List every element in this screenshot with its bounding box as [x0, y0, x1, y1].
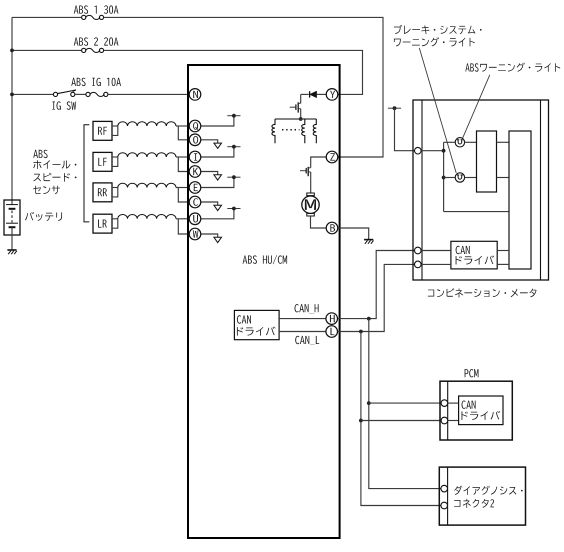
wire PCM pin to CAN driver H — [448, 402, 459, 404]
wire RF terminal 1 — [112, 125, 118, 127]
label ABS IG 10A — [71, 78, 121, 86]
label sensor — [33, 186, 60, 195]
pin Z — [326, 151, 338, 163]
ground internal arrow — [214, 175, 222, 180]
wire driver to logic 2 — [497, 177, 510, 179]
wire ABS2 feed left — [12, 49, 82, 51]
pin B — [326, 222, 338, 234]
wire LR terminal 1 — [112, 218, 118, 220]
switch IG SW — [53, 90, 76, 97]
pin meter lamp feed — [415, 147, 422, 154]
CAN driver (meter) box — [451, 241, 497, 269]
junction CAN_H — [367, 317, 371, 321]
motor pump M — [302, 193, 319, 216]
wire RR terminal 2 — [112, 188, 118, 197]
sensor LR — [93, 214, 112, 233]
block lamp driver — [477, 131, 497, 192]
wire solenoid arm — [275, 118, 316, 120]
wire sensor pin to internal rail — [201, 147, 234, 157]
twisted pair LF — [118, 153, 176, 157]
wire LR terminal 2 — [112, 219, 118, 228]
label ABS warning light — [465, 63, 560, 72]
transistor FET solenoid driver — [290, 102, 301, 112]
label CAN_L — [295, 336, 319, 345]
transistor FET motor driver — [300, 167, 311, 176]
wire sensor pin to internal rail — [201, 116, 234, 126]
label CAN — [237, 315, 251, 323]
label wheel — [33, 160, 76, 169]
diode flyback — [310, 91, 317, 98]
fuse ABS 2 20A — [82, 48, 104, 52]
diagnosis connector box — [439, 467, 525, 525]
fuse ABS IG 10A — [86, 92, 108, 96]
pin H — [326, 313, 338, 325]
pin Q — [189, 120, 201, 132]
wire to brake lamp — [444, 177, 456, 179]
pin E — [189, 182, 201, 194]
bracket sensor group — [84, 125, 89, 222]
pin W — [189, 228, 201, 240]
wire lamp2 to driver block — [465, 177, 477, 179]
wire to ABS lamp — [444, 141, 456, 143]
wire LF terminal 1 — [112, 156, 118, 158]
wire pin B to ground — [338, 228, 369, 239]
leader ABS warning light — [463, 75, 490, 138]
CAN driver (PCM) box — [459, 396, 503, 425]
pin meter CAN H — [415, 247, 422, 254]
wire IG feed left — [12, 93, 53, 95]
label IG SW — [52, 101, 76, 109]
junction CAN_H PCM tap — [367, 401, 371, 405]
wire FET source to motor — [310, 172, 312, 193]
wire CAN_H trunk down to diagnosis — [369, 319, 441, 489]
junction lamp2 feed — [442, 176, 446, 180]
wire battery positive bus — [11, 17, 13, 204]
wire sensor pin to internal rail — [201, 209, 234, 219]
wire meter pin to CAN driver H — [421, 250, 451, 252]
ground ABS unit — [364, 240, 373, 244]
wire RF terminal 2 — [112, 126, 118, 135]
ground internal arrow — [214, 237, 222, 242]
wire twisted pair to upper pin — [176, 187, 189, 189]
node internal supply tap — [227, 114, 240, 118]
label ABS HU/CM — [243, 255, 288, 264]
label diagnosis line2 — [454, 499, 494, 508]
wire twisted pair to upper pin — [176, 156, 189, 158]
wire motor to pin B — [311, 216, 327, 228]
wire branch to lower pin — [178, 157, 189, 172]
wire to diode — [301, 93, 309, 95]
pin I — [189, 151, 201, 163]
junction solenoid arm — [299, 117, 303, 121]
wire CAN_L trunk down to diagnosis — [361, 332, 441, 506]
pin PCM CAN L — [441, 417, 448, 424]
pin L — [326, 326, 338, 338]
label diagnosis line1 — [454, 486, 523, 495]
coil solenoid valve 2 — [302, 119, 305, 143]
pin U — [189, 213, 201, 225]
wire CAN_H to meter — [338, 251, 415, 319]
ground internal arrow — [214, 143, 222, 148]
wire branch to lower pin — [178, 188, 189, 203]
wire driver to logic 1 — [497, 141, 510, 143]
wire lamp1 to driver block — [465, 141, 477, 143]
pin meter CAN L — [415, 261, 422, 268]
coil solenoid valve 1 — [272, 119, 275, 143]
wire sensor return — [201, 140, 218, 143]
wire lamp supply vertical — [443, 142, 445, 211]
twisted pair RR — [118, 183, 176, 187]
twisted pair LR — [118, 215, 176, 219]
wire pin Z to FET drain — [311, 157, 326, 168]
ABS HU/CM unit box — [188, 65, 340, 538]
junction CAN_L — [359, 330, 363, 334]
label battery — [25, 212, 62, 221]
label PCM — [465, 369, 479, 377]
wire feed inside meter — [421, 150, 444, 152]
junction bus/ABS2 — [10, 49, 14, 53]
wire FET source down — [300, 109, 302, 119]
pin diagnosis CAN H — [441, 485, 448, 492]
node internal supply tap — [227, 175, 240, 179]
wire sensor return — [201, 202, 218, 205]
wire CAN_L to PCM — [361, 420, 441, 422]
wire CAN driver to logic H — [497, 250, 509, 252]
label driver PCM — [462, 411, 501, 420]
combination meter box — [413, 100, 549, 280]
ground battery — [7, 250, 16, 254]
junction CAN_L PCM tap — [359, 419, 363, 423]
wire CAN driver to logic L — [497, 263, 509, 265]
label driver — [237, 327, 276, 336]
coil solenoid valve 3 — [313, 119, 316, 143]
wire PCM pin to CAN driver L — [448, 420, 459, 422]
wire CAN driver to pin H — [279, 318, 326, 320]
block meter logic — [509, 131, 531, 269]
wire battery negative — [11, 227, 13, 250]
label ABS 2 20A — [74, 37, 119, 45]
label driver meter — [456, 256, 495, 265]
pin O — [189, 134, 201, 146]
wire CAN_L to meter — [338, 264, 415, 331]
wire diode to pin Y — [317, 93, 327, 95]
wire CAN_H to PCM — [369, 402, 441, 404]
wire twisted pair to upper pin — [176, 218, 189, 220]
wire lamp feed to meter — [395, 108, 415, 151]
node internal supply tap — [227, 145, 240, 149]
wire twisted pair to upper pin — [176, 125, 189, 127]
label CAN meter — [456, 246, 470, 254]
wire ABS1 feed left — [12, 16, 82, 18]
wire meter pin to CAN driver L — [421, 263, 451, 265]
label CAN_H — [295, 304, 319, 313]
label ABS — [33, 150, 47, 158]
label CAN PCM — [462, 401, 476, 409]
junction bus/IG — [10, 93, 14, 97]
label combination meter — [428, 288, 537, 297]
wire to meter logic — [444, 211, 509, 213]
pin N — [189, 89, 201, 101]
leader brake warning light — [419, 48, 456, 173]
CAN driver (ABS) box — [234, 310, 279, 339]
wire sensor pin to internal rail — [201, 177, 234, 187]
lamp ABS warning light — [455, 138, 464, 147]
label speed — [33, 173, 76, 182]
wire sensor return — [201, 172, 218, 175]
node warning light supply tap — [388, 106, 401, 110]
wire ABS1 fuse to pin Z — [104, 17, 383, 157]
pin K — [189, 166, 201, 178]
pin PCM CAN H — [441, 400, 448, 407]
twisted pair RF — [118, 122, 176, 126]
wire IG fuse to pin N — [108, 93, 189, 95]
wire LF terminal 2 — [112, 157, 118, 166]
wire CAN driver to pin L — [279, 331, 326, 333]
junction lamp1 feed — [442, 149, 446, 153]
pin diagnosis CAN L — [441, 502, 448, 509]
fuse ABS 1 30A — [82, 15, 104, 19]
pin C — [189, 196, 201, 208]
wire branch to lower pin — [178, 126, 189, 140]
label brake system warning light line1 — [394, 25, 482, 34]
ground internal arrow — [214, 205, 222, 210]
sensor RF — [93, 121, 112, 140]
label brake system warning light line2 — [394, 37, 475, 46]
sensor LF — [93, 152, 112, 171]
sensor RR — [93, 183, 112, 202]
wire RR terminal 1 — [112, 187, 118, 189]
battery — [4, 200, 20, 235]
pin Y — [326, 89, 338, 101]
wire FET drain up — [300, 94, 302, 103]
wire ABS2 fuse to pin Y — [104, 50, 363, 94]
lamp brake system warning light — [455, 173, 464, 182]
PCM box — [440, 381, 512, 440]
wire sensor return — [201, 234, 218, 237]
wire switch to fuse — [75, 93, 86, 95]
node internal supply tap — [227, 207, 240, 211]
dotted continuation solenoids — [282, 129, 300, 131]
wire branch to lower pin — [178, 219, 189, 234]
label ABS 1 30A — [74, 5, 119, 13]
